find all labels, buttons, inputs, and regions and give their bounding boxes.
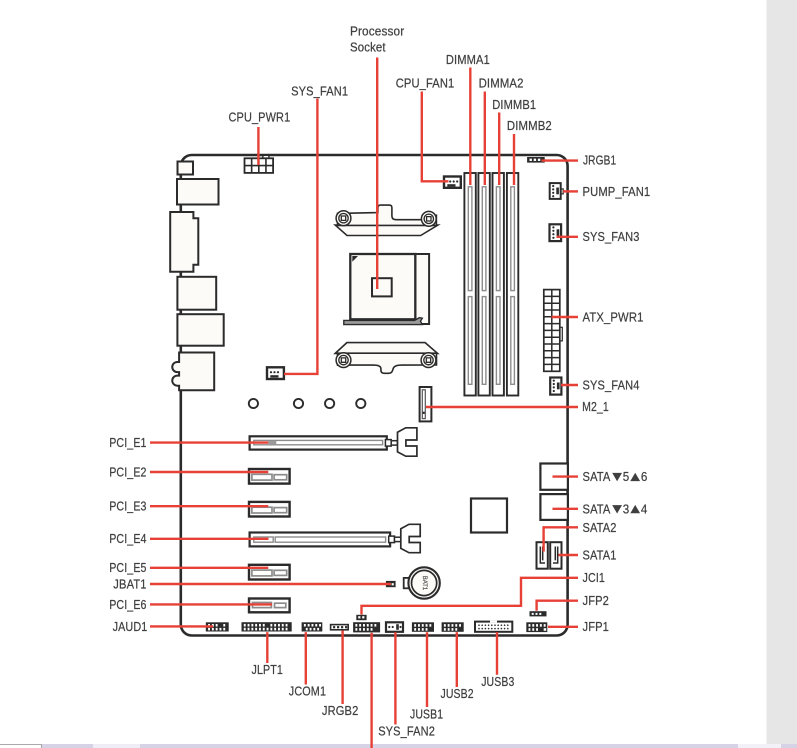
callout Processor Socket: [376, 58, 378, 290]
mounting hole 3: [325, 399, 334, 408]
connector JFP2: [530, 611, 547, 616]
svg-text:JFP1: JFP1: [583, 620, 610, 634]
DIMM slot DIMMB1: [493, 173, 504, 396]
connector JCI1: [356, 615, 366, 620]
svg-text:JFP2: JFP2: [583, 594, 610, 608]
svg-text:SYS_FAN3: SYS_FAN3: [583, 230, 640, 244]
callout bottom header: [370, 633, 372, 748]
svg-text:SATA2: SATA2: [583, 521, 617, 535]
rear IO port: lan block: [177, 277, 216, 310]
socket top retention bracket skirt: [335, 225, 438, 235]
connector PUMP_FAN1: [550, 183, 564, 199]
svg-text:PCI_E1: PCI_E1: [109, 436, 146, 450]
connector JCOM1: [302, 622, 323, 631]
callout JFP2: [537, 601, 578, 611]
callout SATA2: [544, 527, 578, 551]
callout PCI_E4: [150, 538, 269, 540]
callout DIMMA1: [469, 68, 471, 186]
callout SYS_FAN4: [561, 384, 578, 386]
callout PCI_E1: [150, 441, 268, 443]
rear IO port: audio block: [172, 353, 214, 391]
callout M2_1: [426, 406, 578, 408]
svg-text:PCI_E5: PCI_E5: [109, 561, 146, 575]
callout SYS_FAN2: [394, 632, 396, 724]
svg-text:PUMP_FAN1: PUMP_FAN1: [583, 185, 651, 199]
socket top bracket right screw: [421, 211, 436, 226]
slot PCI_E5: [249, 565, 290, 580]
slot PCI_E6: [249, 599, 290, 613]
connector JUSB3: [475, 621, 512, 632]
slot PCI_E2: [249, 469, 290, 484]
callout ATX_PWR1: [552, 316, 579, 318]
svg-text:M2_1: M2_1: [582, 400, 609, 414]
svg-text:SYS_FAN1: SYS_FAN1: [291, 85, 348, 99]
connector SYS_FAN1: [267, 367, 284, 379]
svg-text:Socket: Socket: [350, 40, 386, 54]
battery holder tab: [404, 578, 412, 588]
cpu socket center square: [372, 278, 392, 296]
callout JUSB1: [426, 632, 428, 707]
slot PCI_E4: [250, 533, 391, 547]
slot PCI_E1: [250, 436, 387, 449]
socket bottom bracket right screw: [421, 353, 436, 368]
svg-text:BAT1: BAT1: [421, 576, 427, 591]
callout SYS_FAN1: [284, 99, 317, 374]
DIMM slot DIMMB2: [507, 173, 518, 396]
connector ATX_PWR1: [544, 290, 563, 372]
callout PUMP_FAN1: [563, 190, 578, 192]
connector JRGB2: [331, 625, 349, 630]
svg-text:3: 3: [623, 502, 630, 516]
connector JUSB1: [412, 622, 434, 632]
connector JLPT1: [242, 622, 292, 631]
callout CPU_FAN1: [422, 92, 449, 182]
connector SYS_FAN2: [386, 622, 403, 632]
connector SATA2: [537, 542, 548, 569]
rear IO port: usb lan block: [177, 314, 223, 346]
callout SATA56: [553, 475, 579, 477]
slot PCI_E4 latch: [389, 524, 421, 552]
rear IO port: USB block: [177, 179, 219, 205]
callout PCI_E6: [150, 603, 272, 605]
svg-text:PCI_E3: PCI_E3: [109, 500, 146, 514]
cpu socket main square: [350, 254, 415, 319]
connector header (below JCI1): [353, 622, 380, 632]
slot PCI_E1 latch: [385, 428, 417, 456]
svg-text:5: 5: [623, 470, 630, 484]
callout JRGB2: [341, 631, 343, 705]
svg-text:JUSB2: JUSB2: [441, 687, 474, 701]
callout SATA34: [553, 508, 579, 510]
svg-text:CPU_FAN1: CPU_FAN1: [396, 77, 455, 91]
svg-text:DIMMB1: DIMMB1: [492, 98, 536, 112]
callout CPU_PWR1: [257, 127, 259, 165]
connector JFP1: [526, 622, 547, 632]
svg-text:DIMMA2: DIMMA2: [479, 77, 524, 91]
cpu socket lever bar: [344, 318, 423, 325]
svg-text:PCI_E4: PCI_E4: [109, 532, 146, 546]
connector M2_1: [420, 387, 432, 421]
DIMM slot DIMMA1: [464, 173, 475, 396]
socket top bracket left screw: [336, 211, 351, 226]
callout JRGB1: [542, 159, 579, 161]
svg-text:PCI_E6: PCI_E6: [109, 598, 146, 612]
svg-text:SATA: SATA: [583, 470, 611, 484]
svg-text:JCI1: JCI1: [583, 571, 606, 585]
callout DIMMB1: [498, 113, 500, 186]
svg-text:PCI_E2: PCI_E2: [109, 465, 146, 479]
bottom scrollbar strip: [0, 744, 797, 748]
svg-text:4: 4: [641, 502, 648, 516]
callout JAUD1: [150, 625, 213, 627]
connector SATA1: [550, 542, 561, 569]
callout JLPT1: [266, 632, 268, 663]
callout SATA1: [559, 554, 579, 556]
mounting hole 2: [294, 399, 303, 408]
socket top retention bracket bar: [338, 205, 437, 225]
mounting hole 1: [249, 399, 258, 408]
connector SYS_FAN4: [550, 378, 561, 395]
callout JUSB2: [456, 632, 458, 687]
cpu socket corner mark: [352, 256, 358, 262]
callout JBAT1: [150, 583, 391, 585]
mounting hole 4: [356, 399, 365, 408]
svg-text:SATA: SATA: [583, 502, 611, 516]
chipset: [471, 499, 507, 533]
connector JRGB1: [527, 157, 545, 163]
motherboard outline: [181, 155, 568, 636]
svg-text:DIMMB2: DIMMB2: [507, 119, 552, 133]
callout JFP1: [548, 626, 578, 628]
callout DIMMB2: [513, 134, 515, 185]
svg-text:JRGB2: JRGB2: [322, 704, 359, 718]
jumper JBAT1: [386, 581, 396, 587]
connector SATA56: [540, 464, 568, 490]
red callout lines: [150, 58, 578, 748]
svg-text:JAUD1: JAUD1: [113, 620, 148, 634]
svg-text:JLPT1: JLPT1: [252, 663, 284, 677]
socket bottom retention bracket bar: [338, 353, 437, 373]
svg-text:6: 6: [641, 470, 648, 484]
svg-text:DIMMA1: DIMMA1: [446, 53, 490, 67]
cpu socket right panel: [415, 254, 429, 324]
callout SYS_FAN3: [557, 236, 579, 238]
right gray panel: [767, 0, 797, 748]
connector SYS_FAN3: [550, 224, 562, 241]
connector CPU_PWR1: [245, 155, 274, 173]
callout PCI_E2: [150, 471, 268, 473]
callout JUSB3: [496, 632, 498, 675]
connector JAUD1: [206, 622, 229, 631]
svg-text:JBAT1: JBAT1: [113, 577, 146, 591]
svg-text:SYS_FAN2: SYS_FAN2: [378, 724, 435, 738]
slot PCI_E3: [249, 502, 290, 517]
svg-text:JCOM1: JCOM1: [289, 685, 326, 699]
DIMM slot DIMMA2: [478, 173, 489, 396]
socket bottom retention bracket skirt: [335, 343, 437, 354]
connector SATA34: [540, 494, 568, 520]
svg-text:SATA1: SATA1: [583, 548, 617, 562]
connector JUSB2: [442, 622, 464, 632]
svg-text:ATX_PWR1: ATX_PWR1: [583, 310, 644, 324]
svg-text:Processor: Processor: [350, 25, 404, 39]
callout JCI1: [362, 578, 579, 615]
svg-text:JRGB1: JRGB1: [583, 154, 616, 168]
connector CPU_FAN1: [444, 177, 461, 188]
callout DIMMA2: [484, 92, 486, 186]
svg-text:CPU_PWR1: CPU_PWR1: [229, 111, 291, 125]
svg-text:SYS_FAN4: SYS_FAN4: [583, 378, 640, 392]
battery BAT1: [408, 567, 439, 598]
callout PCI_E5: [150, 567, 268, 569]
callout PCI_E3: [150, 505, 268, 507]
callout JCOM1: [305, 632, 307, 684]
svg-text:JUSB3: JUSB3: [481, 675, 514, 689]
rear IO port: video block: [170, 212, 198, 272]
svg-text:JUSB1: JUSB1: [410, 707, 443, 721]
rear IO port: small top box: [178, 162, 194, 175]
label SATA34: [583, 502, 648, 516]
socket bottom bracket left screw: [336, 353, 351, 368]
label SATA56: [583, 470, 648, 484]
